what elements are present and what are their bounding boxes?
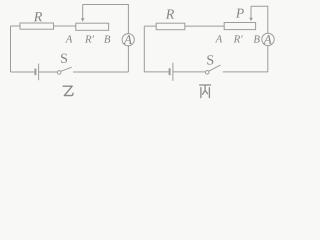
- svg-text:S: S: [206, 54, 214, 69]
- svg-text:S: S: [60, 52, 68, 67]
- svg-text:R: R: [165, 8, 175, 23]
- svg-text:B: B: [253, 34, 260, 46]
- svg-text:A: A: [263, 32, 272, 47]
- svg-text:A: A: [215, 33, 223, 45]
- svg-text:R: R: [33, 10, 43, 25]
- svg-text:B: B: [104, 34, 111, 46]
- svg-text:R′: R′: [84, 34, 95, 46]
- svg-text:A: A: [123, 32, 132, 47]
- svg-text:P: P: [235, 5, 244, 20]
- svg-text:A: A: [65, 34, 73, 46]
- svg-text:R′: R′: [233, 33, 244, 45]
